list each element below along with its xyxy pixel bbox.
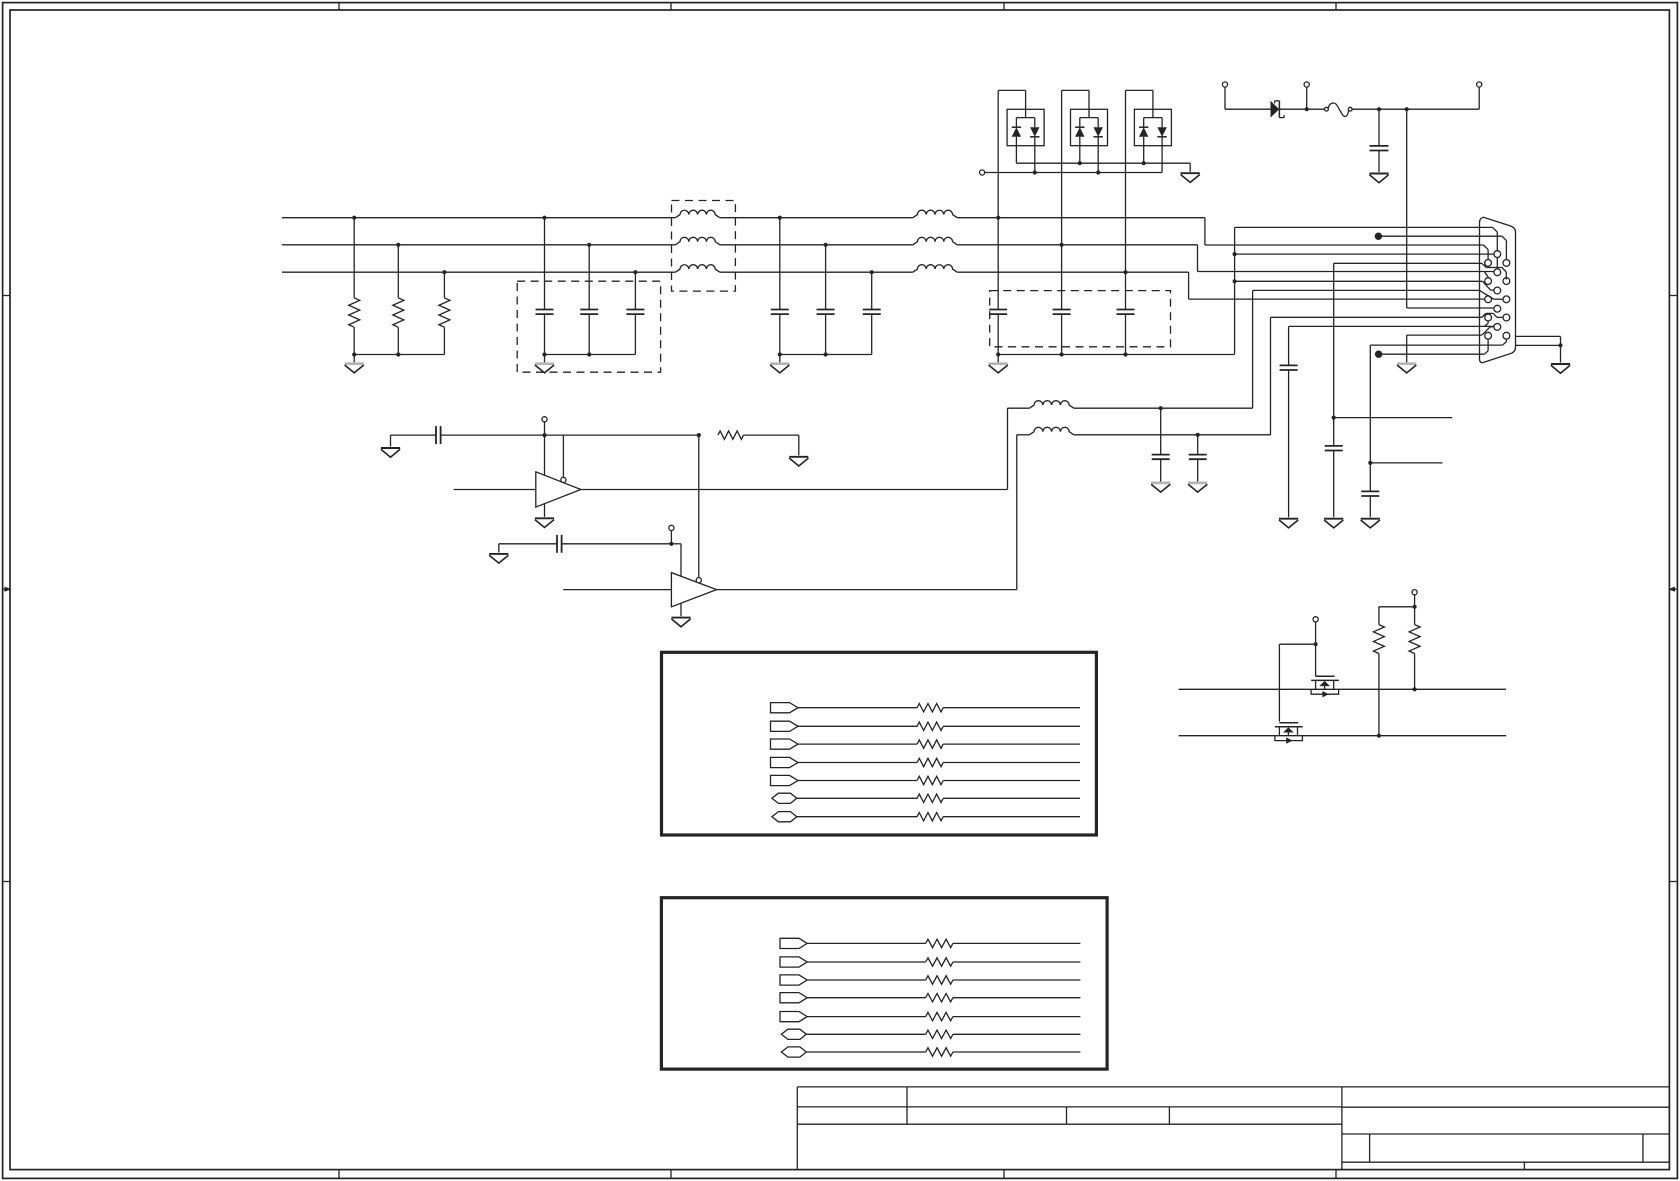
- title block frame: [797, 1087, 1669, 1170]
- ground resistor rail: [353, 355, 355, 363]
- wire row 4 box1: [798, 762, 917, 764]
- wire zener to fuse: [1279, 108, 1324, 110]
- terminal pullup: [1412, 590, 1417, 595]
- wire cap group 3 / AGND rail: [998, 354, 1234, 356]
- bidir flag 7 box2: [781, 1047, 806, 1057]
- capacitor C9: [1117, 310, 1135, 355]
- wire pin line 5: [1334, 262, 1482, 264]
- wire pin13 ground drop: [1406, 335, 1408, 362]
- capacitor C8: [1053, 310, 1071, 355]
- wire U2 output: [717, 589, 1017, 591]
- ground R4: [789, 456, 808, 458]
- terminal ESD lower bus: [980, 170, 985, 175]
- wire video R bus: [282, 217, 675, 219]
- wire pin line 15 with big dot: [1375, 351, 1382, 358]
- wire U1 input: [454, 489, 536, 491]
- ground hsync input cap: [381, 447, 400, 449]
- terminal P2: [1304, 82, 1309, 87]
- resistor row 2 box2: [926, 958, 953, 966]
- wire pin line 6 branch to L2: [1485, 272, 1489, 277]
- inductor L4: [913, 210, 957, 217]
- resistor row 6 box2: [926, 1030, 953, 1038]
- capacitor C12: [1280, 364, 1298, 366]
- bidir flag 6 box1: [772, 793, 797, 803]
- ground C13: [1361, 518, 1380, 520]
- resistor R4: [718, 431, 744, 439]
- connector pin L2: [1485, 278, 1492, 285]
- capacitor C5: [817, 243, 835, 355]
- wire row 1 box1 right: [943, 707, 1080, 709]
- op-amp U1 buffer: [536, 472, 581, 507]
- inductor L5: [913, 237, 957, 245]
- border centre arrow right: [1668, 587, 1677, 592]
- connector pin R5: [1503, 332, 1510, 339]
- border zone ticks right: [1669, 296, 1677, 882]
- ground U1: [544, 504, 546, 517]
- inductor L2: [675, 237, 719, 245]
- wire to zener: [1225, 108, 1271, 110]
- capacitor C7: [989, 310, 1007, 355]
- wire row 2 box1: [798, 725, 917, 727]
- resistor row 5 box1: [917, 776, 943, 784]
- wire to U2 bubble: [698, 435, 700, 577]
- resistor row 1 box2: [926, 939, 953, 947]
- wire video G bus: [282, 244, 675, 246]
- wire row 1 box2: [807, 942, 926, 944]
- input flag 3 box1: [771, 739, 799, 749]
- wire pin line 7: [1235, 280, 1483, 282]
- input flag 3 box2: [780, 975, 807, 985]
- wire pin line 3 stub: [1484, 245, 1489, 250]
- wire to U1 bubble: [562, 435, 564, 477]
- wire pin line 10: [1407, 307, 1494, 309]
- transistor Q2 MOSFET: [1275, 723, 1303, 744]
- wire row 7 box1: [797, 816, 917, 818]
- wire cap group 1 rail: [545, 354, 636, 356]
- wire row 6 box1 right: [943, 797, 1080, 799]
- resistor row 4 box2: [926, 994, 953, 1002]
- wire pin line 11 (vsync) bump: [1482, 313, 1486, 317]
- box input connector group 1: [662, 652, 1097, 835]
- inductor L1: [675, 210, 719, 217]
- junction dot pack D2 on video wire: [1060, 243, 1064, 247]
- wire link pin M1 to M2: [1496, 258, 1498, 270]
- ESD diode pack D2: [1062, 90, 1108, 309]
- connector pin R2: [1503, 278, 1510, 285]
- connector pin M5: [1494, 324, 1501, 331]
- wire row 7 box2: [806, 1051, 925, 1053]
- ground C17 chassis: [1188, 482, 1207, 485]
- wire hsync top: [391, 434, 437, 436]
- ground U2: [680, 603, 682, 616]
- wire pin line 12: [1289, 325, 1494, 327]
- ground vsync input cap: [489, 553, 508, 555]
- input flag 4 box2: [780, 993, 807, 1003]
- terminal hsync enable: [542, 417, 547, 422]
- box input connector group 2: [661, 898, 1107, 1069]
- wire resistor ground rail: [354, 354, 444, 356]
- dashed box inductors L1-L3: [672, 201, 736, 292]
- input flag 2 box1: [771, 721, 799, 731]
- connector pin L4: [1485, 314, 1492, 321]
- wire row 3 box1 right: [943, 743, 1080, 745]
- ground C11: [1324, 518, 1343, 520]
- resistor row 6 box1: [917, 794, 943, 802]
- junction dot pack D1 on video wire: [996, 216, 1000, 220]
- connector pin M1: [1494, 251, 1501, 258]
- input flag 1 box1: [771, 703, 799, 713]
- capacitor C2: [580, 243, 598, 355]
- wire row 6 box2: [806, 1033, 925, 1035]
- terminal P3: [1477, 82, 1482, 87]
- wire row 2 box1 right: [943, 725, 1080, 727]
- wire row 3 box1: [798, 743, 917, 745]
- wire connector shield right upper: [1516, 335, 1561, 337]
- wire row 6 box2 right: [953, 1033, 1081, 1035]
- capacitor C3: [626, 270, 644, 354]
- inductor L7: [1029, 401, 1073, 409]
- capacitor C1: [536, 216, 554, 355]
- ground ESD bus: [1189, 163, 1191, 172]
- capacitor C10: [1370, 109, 1389, 172]
- wire pin line 13: [1407, 334, 1482, 336]
- resistor row 3 box1: [917, 740, 943, 748]
- wire row 7 box2 right: [953, 1051, 1081, 1053]
- wire junction to U2 top: [671, 543, 681, 545]
- resistor R3 termination: [442, 270, 446, 298]
- wire row 6 box1: [797, 797, 917, 799]
- wire vsync top: [499, 543, 557, 545]
- wire row 2 box2 right: [953, 961, 1081, 963]
- wire row 1 box1: [798, 707, 917, 709]
- wire pin line 2 (shield) with big dot: [1375, 233, 1382, 240]
- wire row 3 box2 right: [953, 979, 1081, 981]
- ground cap group 3: [997, 355, 999, 363]
- capacitor C14: [435, 426, 437, 444]
- resistor row 7 box1: [917, 813, 943, 821]
- wire connector ground bus vertical: [1234, 227, 1236, 354]
- resistor row 2 box1: [917, 722, 943, 730]
- wire ddc line vertical with cap: [1369, 345, 1371, 463]
- wire pin line 12 hook from L4: [1487, 321, 1489, 324]
- connector pin M4: [1494, 305, 1501, 312]
- transistor Q1 MOSFET: [1311, 676, 1339, 697]
- zener diode D4: [1271, 101, 1285, 118]
- resistor R6: [1414, 607, 1416, 625]
- connector pin L3: [1485, 296, 1492, 303]
- resistor R1 termination: [352, 216, 356, 298]
- wire pin line 8 (hsync) diagonal: [1480, 290, 1494, 299]
- junction dot pack D3 on video wire: [1123, 270, 1127, 274]
- connector pin R1: [1503, 260, 1510, 267]
- wire row 7 box1 right: [943, 816, 1080, 818]
- wire row 5 box1 right: [943, 780, 1080, 782]
- resistor row 3 box2: [926, 976, 953, 984]
- connector pin M2: [1494, 269, 1501, 276]
- resistor row 4 box1: [917, 758, 943, 766]
- ground C10: [1369, 173, 1388, 175]
- wire row 5 box1: [798, 780, 917, 782]
- border centre arrow left: [3, 587, 12, 592]
- wire L8 to riser: [1074, 434, 1271, 436]
- wire fuse to terminal P3: [1352, 108, 1479, 110]
- wire C16 to junction: [562, 543, 672, 545]
- wire gate node: [1314, 642, 1318, 646]
- connector pin L5: [1485, 332, 1492, 339]
- resistor row 1 box1: [917, 704, 943, 712]
- wire mosfet lower bus: [1179, 735, 1507, 737]
- ground cap group 1: [544, 355, 546, 363]
- wire sda line vertical with cap: [1333, 263, 1335, 417]
- connector J1 D-sub shell: [1480, 217, 1516, 362]
- ground C15 chassis: [1151, 482, 1170, 485]
- terminal gate control: [1313, 617, 1318, 622]
- border zone ticks top: [339, 3, 1336, 10]
- inductor L6: [913, 265, 957, 273]
- border zone ticks bottom: [339, 1170, 1336, 1179]
- wire row 2 box2: [807, 961, 926, 963]
- wire row 3 box2: [807, 979, 926, 981]
- connector pin M3: [1494, 287, 1501, 294]
- wire ESD lower bus: [985, 172, 1162, 174]
- input flag 5 box1: [771, 775, 799, 785]
- input flag 2 box2: [780, 957, 807, 967]
- wire ESD upper bus: [1016, 162, 1190, 164]
- wire scl line vertical with cap: [1288, 326, 1290, 365]
- wire stub from ddc junction: [1370, 462, 1442, 464]
- op-amp U2 buffer: [671, 573, 716, 607]
- input flag 1 box2: [780, 938, 807, 948]
- wire +5V feed vertical: [1406, 109, 1408, 308]
- capacitor C15: [1160, 408, 1162, 454]
- capacitor C17: [1197, 435, 1199, 455]
- wire pin line 1 (gnd): [1235, 226, 1493, 228]
- input flag 5 box2: [780, 1012, 807, 1022]
- capacitor C11: [1325, 445, 1343, 447]
- wire row 4 box2 right: [953, 997, 1081, 999]
- inductor L3: [675, 265, 719, 273]
- capacitor C16: [556, 535, 558, 553]
- wire junction to U1 top: [544, 435, 546, 475]
- wire video B bus: [282, 271, 675, 273]
- capacitor C6: [863, 270, 881, 354]
- wire row 5 box2: [807, 1016, 926, 1018]
- wire row 5 box2 right: [953, 1016, 1081, 1018]
- ESD diode pack D1: [998, 90, 1044, 309]
- wire U2 input: [563, 589, 671, 591]
- wire row 1 box2 right: [953, 942, 1081, 944]
- ESD diode pack D3: [1126, 90, 1172, 309]
- wire mosfet upper bus: [1179, 688, 1507, 690]
- wire U1 output: [581, 489, 1008, 491]
- resistor row 7 box2: [926, 1048, 953, 1056]
- connector pin R3: [1503, 296, 1510, 303]
- bidir flag 6 box2: [781, 1029, 806, 1039]
- resistor R5: [1378, 607, 1380, 625]
- input flag 4 box1: [771, 757, 799, 767]
- wire row 4 box2: [807, 997, 926, 999]
- fuse F1: [1325, 103, 1353, 116]
- capacitor C13: [1361, 490, 1379, 492]
- wire stub from sda junction: [1334, 417, 1453, 419]
- wire L7 to riser: [1074, 407, 1253, 409]
- ground cap group 2: [779, 355, 781, 363]
- ground C12: [1279, 518, 1298, 520]
- ground connector shield: [1551, 363, 1570, 365]
- capacitor C4: [771, 216, 789, 355]
- border zone ticks left: [3, 296, 10, 882]
- ground pin13 chassis: [1397, 362, 1416, 365]
- wire pin line 15 hook from L5: [1487, 339, 1489, 351]
- resistor row 5 box2: [926, 1012, 953, 1020]
- dashed box cap group 3: [990, 291, 1171, 347]
- wire pullup node: [1413, 605, 1417, 609]
- resistor R2 termination: [396, 243, 400, 298]
- wire R4 right to ground: [744, 434, 799, 436]
- inductor L8: [1029, 427, 1073, 435]
- wire C14 to junction: [441, 434, 699, 436]
- wire connector shield right lower: [1516, 344, 1561, 346]
- bidir flag 7 box1: [772, 812, 797, 822]
- terminal P1: [1222, 82, 1227, 87]
- terminal vsync enable: [669, 525, 674, 530]
- wire cap group 2 rail: [780, 354, 872, 356]
- connector pin R4: [1503, 314, 1510, 321]
- connector pin L1: [1485, 260, 1492, 267]
- dashed box cap group 1: [517, 281, 660, 372]
- wire pin line 4: [1235, 253, 1494, 255]
- wire pin line 14: [1370, 344, 1502, 346]
- wire row 4 box1 right: [943, 762, 1080, 764]
